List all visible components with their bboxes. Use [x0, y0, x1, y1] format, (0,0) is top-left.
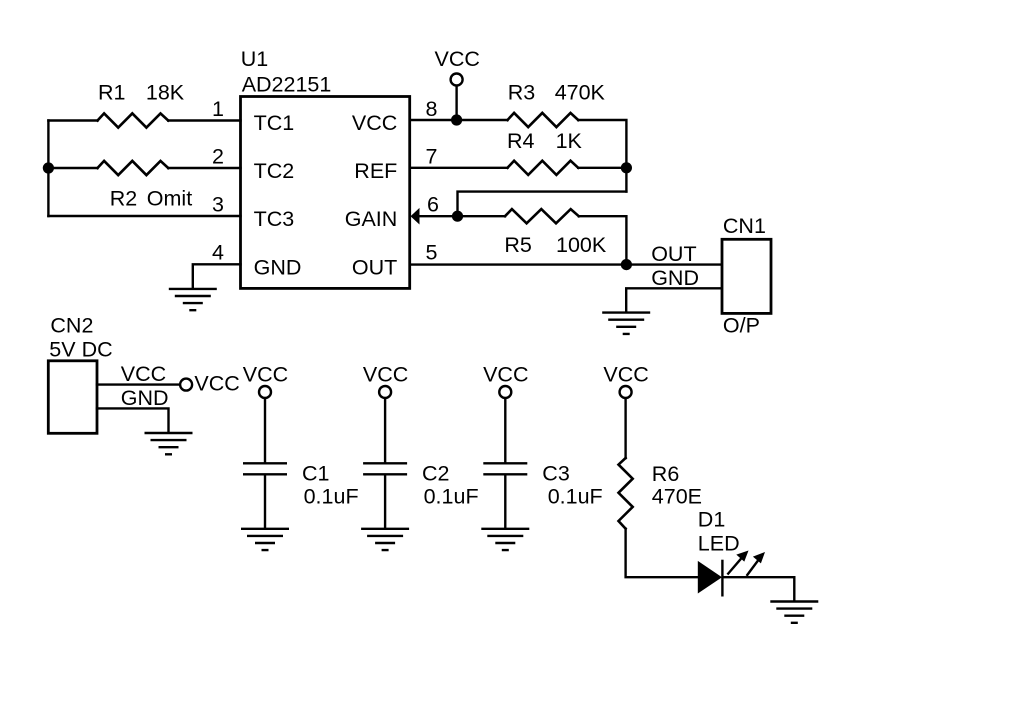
capacitor C1 [243, 463, 287, 474]
wire pin6 gain [414, 216, 626, 264]
connector CN2 [48, 361, 97, 434]
wire VCC stub [455, 86, 457, 120]
capacitor C2 [363, 463, 407, 474]
svg-text:R6: R6 [652, 462, 680, 486]
wire pin3 [48, 215, 240, 217]
resistor R2 [98, 161, 169, 175]
diode D1 LED [698, 561, 722, 594]
svg-text:VCC: VCC [603, 362, 648, 386]
svg-text:7: 7 [426, 145, 438, 169]
svg-text:5V DC: 5V DC [49, 337, 112, 361]
svg-text:GND: GND [651, 266, 699, 290]
svg-text:R1: R1 [98, 81, 125, 105]
wire C1 bottom [264, 476, 266, 529]
svg-text:1: 1 [212, 97, 224, 121]
svg-text:5: 5 [426, 241, 438, 265]
node junction gain [452, 211, 463, 222]
wire C3 top [504, 398, 506, 462]
resistor R6 [619, 458, 633, 529]
VCC symbol C3 [499, 386, 511, 398]
svg-text:470K: 470K [555, 80, 606, 104]
resistor R3 [508, 113, 579, 127]
svg-text:LED: LED [698, 532, 740, 556]
node junction left [43, 162, 54, 173]
svg-text:R5: R5 [504, 233, 532, 257]
wire C2 top [384, 398, 386, 462]
svg-text:1K: 1K [556, 129, 583, 153]
resistor R4 [508, 161, 579, 175]
wire pin5 out [410, 263, 722, 265]
wire LED to ground [724, 577, 794, 601]
svg-text:4: 4 [212, 241, 224, 265]
svg-text:GND: GND [254, 255, 302, 279]
svg-text:18K: 18K [146, 81, 185, 105]
svg-text:3: 3 [212, 193, 224, 217]
ground C1 [241, 529, 289, 550]
VCC symbol CN2 [180, 379, 192, 391]
ground LED [770, 602, 818, 623]
resistor R5 [505, 209, 579, 223]
connector CN1 [722, 239, 771, 313]
svg-text:6: 6 [427, 193, 439, 217]
svg-text:Omit: Omit [147, 187, 192, 211]
wire left vertical [47, 121, 49, 217]
node junction pin8 [451, 114, 462, 125]
svg-text:CN1: CN1 [723, 214, 766, 238]
node junction out [621, 259, 632, 270]
wire pin4 to ground [193, 264, 241, 288]
svg-text:8: 8 [426, 97, 438, 121]
diode D1 cathode bar [721, 560, 723, 597]
wire R6 bottom to LED [626, 529, 698, 578]
ground CN1 [602, 313, 650, 334]
svg-text:GAIN: GAIN [345, 207, 398, 231]
VCC symbol C2 [379, 386, 391, 398]
LED arrow 1 [728, 551, 748, 574]
svg-text:VCC: VCC [194, 372, 239, 396]
LED arrow 2 [747, 552, 765, 575]
svg-text:AD22151: AD22151 [242, 73, 332, 97]
svg-text:0.1uF: 0.1uF [304, 485, 359, 509]
wire CN2 gnd [97, 408, 169, 432]
wire CN1 gnd [626, 288, 722, 312]
ground CN2 [145, 433, 193, 454]
VCC symbol top [451, 74, 463, 86]
svg-text:REF: REF [354, 159, 397, 183]
arrowhead into pin6 [411, 208, 420, 225]
svg-text:VCC: VCC [352, 111, 397, 135]
svg-text:OUT: OUT [352, 255, 397, 279]
resistor R1 [98, 113, 169, 127]
op-amp U1 body [241, 97, 410, 289]
wire C1 top [264, 398, 266, 462]
ground C2 [361, 529, 409, 550]
svg-text:D1: D1 [698, 508, 725, 532]
wire pin8 [410, 120, 627, 192]
svg-text:TC3: TC3 [254, 207, 295, 231]
svg-text:C3: C3 [542, 462, 570, 486]
wire gain feedback [458, 192, 627, 217]
svg-text:2: 2 [212, 145, 224, 169]
svg-text:0.1uF: 0.1uF [424, 485, 479, 509]
node junction R4 [621, 162, 632, 173]
svg-text:100K: 100K [556, 233, 607, 257]
wire R6 top [624, 398, 626, 458]
svg-text:R3: R3 [508, 80, 536, 104]
capacitor C3 [483, 463, 527, 474]
VCC symbol C1 [259, 386, 271, 398]
wire pin1 left [48, 119, 240, 121]
svg-text:VCC: VCC [483, 362, 528, 386]
svg-text:R4: R4 [507, 129, 535, 153]
svg-text:CN2: CN2 [50, 314, 93, 338]
svg-text:U1: U1 [241, 47, 268, 71]
svg-text:VCC: VCC [363, 362, 408, 386]
VCC symbol R6 [620, 386, 632, 398]
wire C2 bottom [384, 476, 386, 529]
svg-text:TC2: TC2 [254, 159, 295, 183]
svg-text:TC1: TC1 [254, 111, 295, 135]
ground pin4 [169, 289, 217, 310]
wire CN2 vcc [97, 383, 180, 385]
svg-text:VCC: VCC [243, 362, 288, 386]
svg-text:C2: C2 [422, 462, 449, 486]
svg-text:GND: GND [121, 386, 169, 410]
svg-text:R2: R2 [110, 187, 137, 211]
svg-text:C1: C1 [302, 462, 329, 486]
ground C3 [481, 529, 529, 550]
svg-text:O/P: O/P [723, 314, 760, 338]
wire pin7 [410, 167, 627, 169]
svg-text:OUT: OUT [651, 242, 696, 266]
svg-text:VCC: VCC [121, 362, 166, 386]
svg-text:0.1uF: 0.1uF [548, 485, 603, 509]
svg-text:VCC: VCC [435, 47, 480, 71]
svg-text:470E: 470E [652, 485, 702, 509]
wire pin2 [48, 167, 240, 169]
wire C3 bottom [504, 476, 506, 529]
